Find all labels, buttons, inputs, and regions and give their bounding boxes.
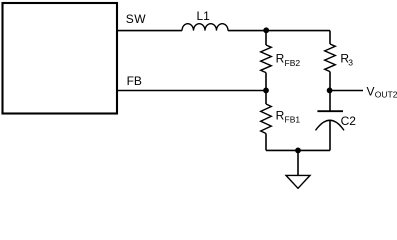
svg-text:FB: FB — [127, 74, 142, 88]
svg-text:V: V — [367, 84, 375, 98]
svg-text:L1: L1 — [197, 9, 211, 23]
svg-text:FB2: FB2 — [285, 58, 301, 68]
svg-text:R: R — [276, 52, 285, 66]
svg-text:R: R — [276, 108, 285, 122]
svg-text:3: 3 — [348, 58, 353, 68]
svg-text:C2: C2 — [341, 114, 357, 128]
svg-text:SW: SW — [126, 12, 147, 26]
svg-text:OUT2: OUT2 — [375, 90, 397, 100]
svg-text:FB1: FB1 — [285, 115, 301, 125]
